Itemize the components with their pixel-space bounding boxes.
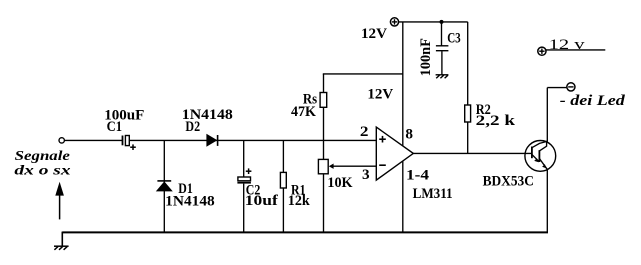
wire supply vertical to opamp pin 8	[402, 22, 404, 146]
svg-text:BDX53C: BDX53C	[483, 172, 534, 189]
svg-text:10K: 10K	[327, 174, 352, 191]
resistor R1	[280, 172, 286, 188]
wire C2 branch vertical top	[243, 140, 245, 177]
pot wiper arrow	[329, 164, 334, 169]
resistor R2	[465, 105, 471, 122]
resistor Rs 47K	[320, 93, 327, 108]
svg-text:47K: 47K	[291, 103, 316, 120]
svg-text:12V: 12V	[361, 25, 387, 42]
wire emitter to ground rail	[546, 170, 548, 232]
wire C2 to ground rail	[243, 184, 245, 232]
wire C1 to opamp (main signal line)	[129, 139, 376, 141]
svg-text:3: 3	[362, 166, 370, 183]
capacitor C2	[237, 168, 251, 182]
svg-text:dx o sx: dx o sx	[14, 162, 70, 177]
svg-text:100nF: 100nF	[418, 38, 434, 76]
wire R1 branch vertical	[282, 140, 284, 231]
op-amp U1 LM311	[376, 127, 413, 180]
svg-text:1-4: 1-4	[406, 166, 429, 183]
wire ground rail	[62, 231, 548, 233]
node -dei Led terminal	[567, 83, 575, 91]
wire collector to -Led terminal	[547, 87, 566, 89]
svg-text:LM311: LM311	[413, 185, 453, 202]
svg-text:Segnale: Segnale	[15, 148, 70, 163]
node junction dot C3	[440, 20, 444, 24]
wire Rs top to 12V supply line	[323, 73, 403, 75]
svg-text:C3: C3	[447, 30, 461, 47]
svg-text:- dei Led: - dei Led	[560, 93, 626, 109]
svg-text:D2: D2	[185, 118, 200, 135]
svg-text:10uf: 10uf	[245, 192, 279, 209]
wire C3 to ground symbol	[441, 51, 443, 74]
wire inverting input to pot wiper	[332, 165, 377, 167]
svg-text:C1: C1	[107, 118, 122, 135]
wire input to C1	[64, 139, 122, 141]
svg-text:8: 8	[405, 125, 413, 142]
transistor Q1 BDX53C	[525, 141, 556, 172]
diode D1	[157, 181, 172, 191]
node 12 v lamp supply terminal	[538, 47, 546, 55]
wire opamp pin 1-4 to ground rail	[402, 161, 404, 232]
node 12V terminal	[390, 18, 398, 26]
diode D2	[207, 135, 218, 146]
potentiometer 10K body	[318, 159, 328, 173]
wire C3 drop	[441, 22, 443, 46]
wire R2 vertical	[467, 22, 469, 154]
ground (C3)	[436, 75, 449, 79]
ground (main)	[54, 246, 69, 250]
svg-text:12 v: 12 v	[549, 36, 586, 53]
wire collector up	[546, 88, 548, 142]
svg-text:2,2 k: 2,2 k	[476, 112, 516, 129]
capacitor C3	[436, 46, 449, 51]
wire ground rail left drop	[61, 232, 63, 246]
svg-text:2: 2	[360, 123, 369, 140]
svg-text:12k: 12k	[288, 192, 311, 209]
wire Rs / pot vertical	[323, 74, 325, 232]
node input terminal	[59, 138, 64, 143]
wire D1 branch vertical	[163, 140, 165, 231]
svg-text:1N4148: 1N4148	[165, 192, 215, 209]
capacitor C1	[123, 136, 136, 151]
svg-text:12V: 12V	[367, 86, 393, 103]
wire 12V top rail	[399, 21, 468, 23]
input direction arrow	[55, 182, 64, 220]
wire 12 v line	[546, 49, 605, 51]
wire opamp output to transistor base	[413, 152, 532, 154]
